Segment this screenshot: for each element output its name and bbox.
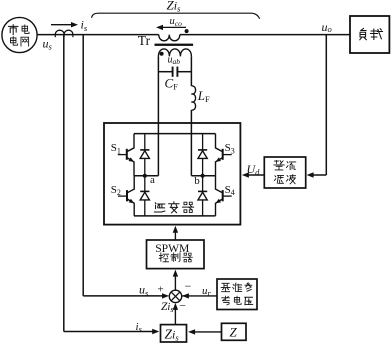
svg-text:b: b — [194, 175, 200, 187]
wire: load tap down to rectifier — [325, 35, 327, 175]
bridge top rail — [134, 133, 216, 135]
arrowhead us into summing junction — [162, 293, 169, 298]
node a dot — [143, 174, 147, 178]
left leg of filter (node a leg) — [157, 56, 159, 175]
arrow SPWM to inverter — [174, 231, 176, 240]
svg-text:−: − — [179, 298, 186, 312]
load box 负载 — [350, 16, 389, 53]
arrow summing junction to SPWM — [174, 274, 176, 291]
transistor S4 — [216, 176, 232, 216]
AC mains source circle 市电电网 — [2, 17, 37, 52]
transformer secondary winding (3 arcs above baseline) — [158, 49, 191, 56]
SPWM controller box — [147, 240, 205, 269]
wire Z to Zis — [191, 331, 222, 333]
is arrow on main wire — [51, 24, 74, 26]
current transformer pickup bumps on main wire — [55, 30, 73, 34]
uco arrow (over primary) — [160, 26, 187, 28]
arrow into rectifier box — [307, 172, 314, 177]
inductor LF coil — [191, 86, 195, 110]
bridge bottom rail — [134, 215, 216, 217]
rectifier-filter box 整流滤波 — [264, 157, 305, 188]
Ud wire from rectifier to inverter — [245, 174, 264, 176]
transistor S2 — [118, 176, 134, 216]
svg-text:Z: Z — [230, 325, 238, 340]
us sense wire (vertical tap down to summing junction) — [82, 35, 84, 296]
inverter box 逆变器 — [104, 123, 240, 225]
Zis span brace (top) — [92, 13, 260, 19]
ur wire from reference box — [182, 295, 217, 297]
right leg upper segment — [190, 56, 192, 86]
arrowhead Ud into inverter — [242, 172, 249, 177]
inverter label 逆变器 — [154, 202, 193, 213]
capacitor CF wires — [158, 71, 172, 73]
transistor S1 — [118, 134, 134, 176]
wire: source to transformer primary — [37, 34, 159, 36]
wire: transformer to load — [180, 34, 350, 36]
Zis feedback wire up into summing junction — [174, 307, 176, 325]
svg-text:a: a — [150, 174, 155, 186]
diode D4 (antiparallel to S4) — [198, 176, 207, 216]
transformer primary winding (2 arcs below wire) — [159, 35, 180, 41]
reference voltage box 基准参考电压 — [217, 279, 257, 310]
is sense wire (left vertical from CT down to Zis input) — [63, 35, 65, 332]
primary polarity dot — [185, 29, 189, 33]
diode D3 (antiparallel to S3) — [198, 134, 207, 176]
svg-text:−: − — [185, 279, 192, 293]
Z box — [222, 323, 247, 340]
arrowhead into Zis from Z — [188, 329, 195, 334]
transformer core bar — [155, 44, 194, 46]
node a horizontal wire — [134, 175, 158, 177]
transistor S3 — [216, 134, 232, 176]
diode D1 (antiparallel to S1) — [140, 134, 149, 176]
summing junction circle with X — [169, 290, 181, 302]
svg-text:+: + — [158, 284, 164, 296]
right leg lower segment (node b leg) — [190, 110, 192, 176]
arrowhead is into Zis box — [152, 329, 159, 334]
secondary polarity dot — [160, 52, 164, 56]
Zis box — [161, 325, 187, 343]
node b dot — [201, 174, 205, 178]
node b horizontal wire — [191, 175, 215, 177]
arrowhead ur into summing junction — [182, 293, 189, 298]
capacitor CF plates — [172, 67, 174, 77]
diode D2 (antiparallel to S2) — [140, 176, 149, 216]
svg-text:Tr: Tr — [138, 33, 151, 48]
